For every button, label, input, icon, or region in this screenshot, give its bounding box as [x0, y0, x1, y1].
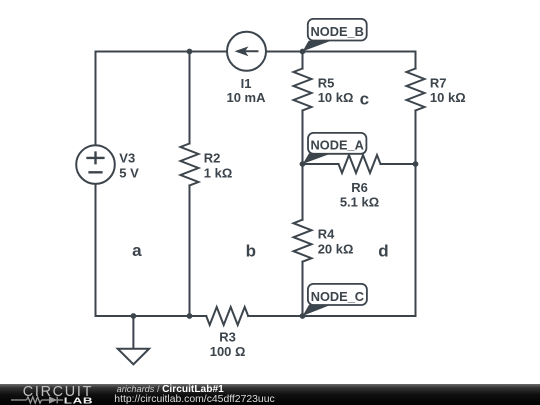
junction R6 right — [413, 161, 419, 167]
resistor R3 — [206, 307, 248, 325]
resistor R2 — [181, 144, 199, 186]
resistor R6 — [339, 155, 381, 173]
wire R2 column bottom — [189, 186, 191, 317]
wire node column lower — [302, 262, 304, 316]
junction ground — [131, 313, 137, 319]
wire bottom left — [96, 315, 207, 317]
svg-text:http://circuitlab.com/c45dff27: http://circuitlab.com/c45dff2723uuc — [114, 394, 274, 405]
svg-text:V3: V3 — [119, 150, 135, 165]
svg-text:R6: R6 — [351, 180, 368, 195]
junction R2 top — [187, 49, 193, 55]
svg-text:5.1 kΩ: 5.1 kΩ — [340, 195, 379, 210]
svg-text:LAB: LAB — [64, 396, 93, 405]
current source I1 — [227, 32, 266, 71]
wire node column upper — [302, 52, 304, 69]
resistor R4 — [294, 220, 312, 262]
svg-text:NODE_C: NODE_C — [311, 289, 364, 304]
svg-text:5 V: 5 V — [119, 165, 139, 180]
svg-text:10 kΩ: 10 kΩ — [430, 90, 466, 105]
junction R2 bottom — [187, 313, 193, 319]
svg-text:a: a — [132, 241, 142, 260]
ground — [132, 316, 134, 349]
logo diode — [49, 396, 57, 403]
svg-text:b: b — [246, 242, 256, 261]
svg-text:1 kΩ: 1 kΩ — [204, 166, 233, 181]
svg-text:R5: R5 — [318, 75, 335, 90]
svg-text:10 mA: 10 mA — [226, 90, 266, 105]
wire R2 column top — [189, 52, 191, 144]
wire bottom right — [248, 315, 415, 317]
junction node C dot — [300, 313, 306, 319]
resistor R5 — [294, 69, 312, 111]
logo resistor squiggle — [11, 397, 63, 404]
svg-text:NODE_A: NODE_A — [311, 138, 364, 153]
svg-text:I1: I1 — [241, 76, 252, 91]
footer bar — [0, 384, 540, 405]
wire R6 left lead — [303, 163, 339, 165]
wire node column middle — [302, 111, 304, 220]
junction node B dot — [300, 49, 306, 55]
svg-text:10 kΩ: 10 kΩ — [318, 90, 354, 105]
svg-text:R7: R7 — [430, 75, 447, 90]
wire left column — [95, 52, 97, 317]
node NODE_A — [303, 133, 367, 164]
wire right column bottom — [415, 111, 417, 317]
wire top horizontal — [96, 51, 416, 53]
wire R6 right lead — [381, 163, 416, 165]
junction node A dot — [300, 161, 306, 167]
node NODE_C — [303, 284, 367, 316]
svg-text:R4: R4 — [318, 226, 335, 241]
resistor R7 — [407, 69, 425, 111]
svg-text:R2: R2 — [204, 151, 221, 166]
wire right column top — [415, 52, 417, 69]
svg-text:R3: R3 — [219, 330, 236, 345]
svg-text:20 kΩ: 20 kΩ — [318, 242, 354, 257]
node NODE_B — [303, 19, 367, 52]
svg-text:NODE_B: NODE_B — [311, 24, 364, 39]
voltage source V3 — [76, 145, 115, 184]
svg-text:100 Ω: 100 Ω — [210, 344, 246, 359]
svg-text:d: d — [378, 242, 388, 261]
svg-text:c: c — [360, 90, 369, 109]
